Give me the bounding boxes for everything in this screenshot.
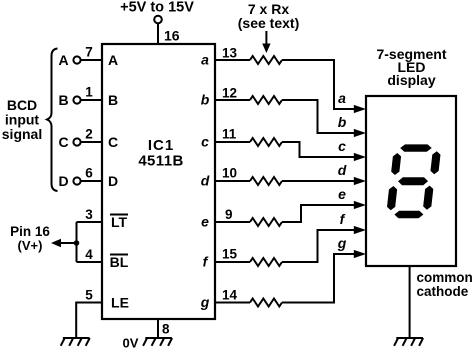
wire pin 10 stub (215, 180, 250, 182)
arrowhead b (354, 129, 366, 137)
wire f to display (282, 230, 355, 262)
wire c to display (282, 142, 355, 157)
svg-text:7: 7 (85, 45, 93, 60)
resistor Rx (a) (250, 56, 282, 64)
svg-text:g: g (200, 294, 210, 310)
svg-text:3: 3 (85, 207, 93, 222)
svg-text:g: g (337, 235, 347, 251)
IC U1 body (4511B) (102, 44, 215, 319)
wire pin 13 stub (215, 59, 250, 61)
wire supply to pin 16 (157, 23, 159, 44)
svg-text:D: D (108, 173, 118, 189)
svg-text:(see text): (see text) (238, 15, 299, 31)
svg-text:6: 6 (85, 166, 93, 181)
svg-text:e: e (201, 214, 209, 230)
svg-text:B: B (108, 92, 118, 108)
wire g to display (282, 254, 355, 303)
svg-text:16: 16 (164, 28, 180, 44)
input C terminal (73, 138, 80, 145)
arrowhead f (354, 226, 366, 234)
wire d to display (282, 180, 355, 182)
arrow to resistor Rx (265, 31, 267, 45)
svg-text:c: c (201, 134, 209, 150)
arrow to Pin16 note (59, 242, 77, 244)
arrowhead e (354, 201, 366, 209)
segment c (423, 186, 434, 210)
segment b (430, 151, 441, 174)
svg-text:10: 10 (222, 166, 237, 181)
svg-text:LE: LE (111, 295, 129, 311)
svg-text:b: b (338, 114, 347, 130)
svg-text:1: 1 (85, 85, 93, 100)
svg-text:Pin 16: Pin 16 (10, 224, 50, 239)
svg-text:14: 14 (222, 288, 238, 303)
wire pin 9 stub (215, 221, 250, 223)
svg-text:8: 8 (162, 322, 170, 337)
resistor Rx (g) (250, 299, 282, 307)
arrowhead g (354, 250, 366, 258)
wire pin 5 to ground (76, 303, 102, 339)
svg-text:(V+): (V+) (18, 238, 43, 253)
wire e to display (282, 205, 355, 222)
input D terminal (73, 177, 80, 184)
segment d (394, 211, 424, 218)
svg-text:D: D (58, 173, 68, 189)
display DS1 body (366, 96, 456, 266)
svg-text:0V: 0V (123, 336, 139, 350)
wire B to pin 1 (81, 99, 102, 101)
segment g (398, 177, 429, 185)
ground (pin 8 / 0V) (143, 338, 172, 346)
arrowhead d (354, 177, 366, 185)
wire A to pin 7 (81, 59, 102, 61)
input A terminal (73, 56, 80, 63)
svg-text:B: B (58, 92, 68, 108)
wire D to pin 6 (81, 180, 102, 182)
svg-text:b: b (201, 92, 210, 108)
svg-text:common: common (417, 270, 473, 285)
segment f (391, 153, 402, 175)
svg-text:c: c (338, 138, 346, 154)
svg-text:cathode: cathode (417, 284, 469, 299)
wire pin 12 stub (215, 99, 250, 101)
svg-text:BL: BL (110, 254, 129, 270)
svg-text:a: a (201, 52, 209, 68)
wire b to display (282, 100, 355, 133)
svg-text:e: e (338, 186, 346, 202)
resistor Rx (b) (250, 96, 282, 104)
svg-text:5: 5 (85, 288, 93, 303)
svg-text:signal: signal (2, 126, 42, 142)
wire to pin 4 (77, 261, 103, 263)
wire pin 8 to ground (157, 319, 159, 338)
wire display to ground (common cathode) (409, 266, 411, 338)
junction dot (74, 240, 80, 246)
resistor Rx (c) (250, 138, 282, 146)
svg-text:display: display (387, 72, 435, 88)
supply terminal (154, 16, 162, 24)
svg-text:C: C (58, 134, 68, 150)
input brace (47, 49, 58, 192)
svg-text:4: 4 (85, 247, 93, 262)
wire pin 15 stub (215, 261, 250, 263)
segment a (400, 144, 432, 151)
arrowhead c (354, 153, 366, 161)
7-segment digit 8 (386, 144, 442, 218)
arrowhead a (354, 105, 366, 113)
svg-text:4511B: 4511B (138, 153, 183, 170)
wire a to display (282, 60, 355, 109)
svg-text:d: d (338, 162, 347, 178)
wire C to pin 2 (81, 141, 102, 143)
resistor Rx (d) (250, 177, 282, 185)
ground (common cathode) (394, 338, 423, 346)
svg-text:A: A (58, 52, 68, 68)
resistor Rx (f) (250, 258, 282, 266)
input B terminal (73, 96, 80, 103)
svg-text:+5V to 15V: +5V to 15V (120, 0, 194, 16)
svg-text:C: C (108, 134, 118, 150)
svg-text:11: 11 (222, 127, 237, 142)
svg-text:LT: LT (111, 214, 128, 230)
svg-text:A: A (108, 52, 118, 68)
wire LT/BL tie (76, 222, 78, 262)
svg-text:a: a (338, 90, 346, 106)
svg-text:9: 9 (225, 207, 233, 222)
wire pin 14 stub (215, 302, 250, 304)
svg-text:15: 15 (222, 247, 238, 262)
svg-text:IC1: IC1 (148, 137, 174, 154)
svg-text:13: 13 (222, 46, 238, 61)
wire pin 11 stub (215, 141, 250, 143)
svg-text:2: 2 (85, 127, 93, 142)
svg-text:12: 12 (222, 86, 237, 101)
resistor Rx (e) (250, 218, 282, 226)
wire to pin 3 (77, 221, 103, 223)
segment e (387, 186, 398, 210)
svg-text:d: d (201, 173, 210, 189)
ground (pin 5) (61, 338, 90, 346)
